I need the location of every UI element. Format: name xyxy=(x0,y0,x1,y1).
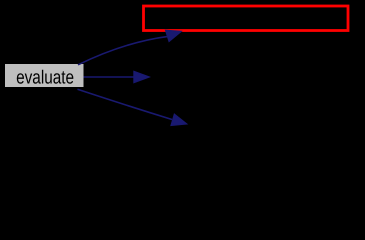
arrowhead 2 xyxy=(134,71,150,83)
edge 3: evaluate -> hidden node (wire) xyxy=(78,89,173,119)
svg-text:evaluate: evaluate xyxy=(16,67,74,88)
edge 2: evaluate -> hidden node (wire) xyxy=(84,76,135,78)
arrowhead 3 xyxy=(171,114,187,126)
node N2 (red highlighted, empty label) xyxy=(144,6,349,31)
node N1 evaluate xyxy=(5,64,84,88)
edge 1: evaluate -> red node (wire) xyxy=(78,36,168,64)
arrowhead 1 xyxy=(165,30,181,41)
